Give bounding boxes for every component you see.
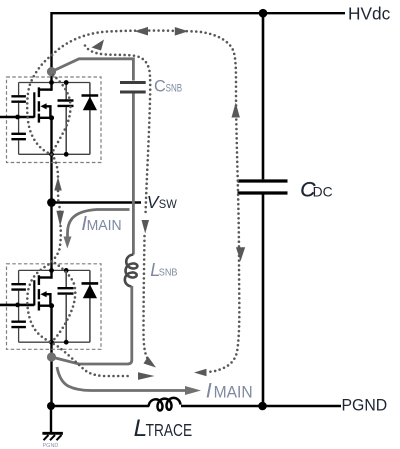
wire gate-branch lower xyxy=(18,140,20,154)
capacitor Cgd Q1 xyxy=(11,96,26,101)
wire PGND bottom rail xyxy=(51,405,150,407)
arrowhead dotted rail down (below Vsw) xyxy=(56,211,64,227)
MOSFET cell Q2 (bottom) xyxy=(0,264,101,350)
svg-text:C: C xyxy=(154,78,166,96)
node Q1 cds bottom node xyxy=(64,152,69,157)
wire gate-branch mid xyxy=(18,103,20,134)
transistor Q2 xyxy=(34,270,54,311)
wire snubber top (gray) xyxy=(52,59,134,81)
diode body D2 xyxy=(82,270,99,342)
svg-text:MAIN: MAIN xyxy=(87,218,122,234)
wire left rail Q2 to PGND xyxy=(50,342,52,406)
svg-text:MAIN: MAIN xyxy=(214,383,253,401)
inductor LSNB xyxy=(125,255,138,287)
svg-text:PGND: PGND xyxy=(342,396,388,415)
arrow IMAIN lower (gray) xyxy=(57,367,201,395)
wire HVdc top rail xyxy=(52,12,346,14)
node snubber bottom gray dot xyxy=(47,352,56,361)
node Vsw xyxy=(47,198,56,207)
capacitor Cgd Q2 xyxy=(11,284,26,289)
inductor LTRACE xyxy=(149,398,181,411)
arrowhead dotted top-left (left) xyxy=(135,27,149,36)
wire cell bottom line xyxy=(19,341,90,343)
node Q2 cds bottom node xyxy=(64,340,69,345)
dotted loop snubber-side xyxy=(85,46,151,364)
node gate junction Q2 xyxy=(15,303,20,308)
wire cell top line xyxy=(19,269,90,271)
arrowhead dotted down (CDC side) xyxy=(236,247,245,261)
capacitor CSNB xyxy=(120,83,146,93)
wire gate-branch lower xyxy=(18,328,20,342)
svg-text:DC: DC xyxy=(313,185,333,200)
wire Q1 source to bottom xyxy=(50,118,52,155)
wire gate-branch upper xyxy=(18,83,20,96)
svg-text:I: I xyxy=(206,378,212,402)
svg-text:PGND: PGND xyxy=(43,443,59,449)
capacitor CDC xyxy=(238,13,288,406)
dotted loop outer (main ringing loop) xyxy=(27,31,239,376)
wire left rail top (HVdc to Q1 drain) xyxy=(50,12,52,83)
transistor Q1 xyxy=(34,82,54,123)
wire gate-branch mid xyxy=(18,290,20,321)
svg-text:SNB: SNB xyxy=(166,83,183,95)
node Q1 cds top node xyxy=(64,80,69,85)
wire snubber mid (gray) xyxy=(132,94,135,255)
arrowhead dotted rail up (between cells) xyxy=(54,177,62,191)
wire Vsw stub xyxy=(52,201,142,204)
enclosure dashed box Q1 xyxy=(7,77,102,163)
wire gate lead Q2 xyxy=(0,304,34,307)
ground PGND symbol xyxy=(42,406,63,449)
arrowhead dotted snubber start (down-left) xyxy=(92,40,105,51)
wire PGND bottom rail right xyxy=(181,405,341,407)
svg-text:HVdc: HVdc xyxy=(348,3,391,23)
node Q1 source node xyxy=(49,152,54,157)
wire Q2 source to bottom xyxy=(50,306,52,343)
wire gate lead Q1 xyxy=(0,116,34,119)
node Q2 cds top node xyxy=(64,268,69,273)
node Q1 drain node xyxy=(49,80,54,85)
node PGND-left junction xyxy=(47,402,55,410)
wire left rail Q1 to Vsw xyxy=(50,154,52,202)
node Q2 drain node xyxy=(49,268,54,273)
arrowhead dotted bottom-left-end (left) xyxy=(194,369,207,376)
wire gate-branch upper xyxy=(18,270,20,283)
node gate junction Q1 xyxy=(15,115,20,120)
wire left rail Vsw to Q2 xyxy=(50,203,52,271)
svg-text:SNB: SNB xyxy=(159,266,178,278)
wire cell bottom line xyxy=(19,153,90,155)
arrowhead dotted snubber down (at Vsw) xyxy=(142,220,150,234)
svg-text:TRACE: TRACE xyxy=(146,420,193,440)
enclosure dashed box Q2 xyxy=(7,264,102,350)
capacitor Cds Q1 xyxy=(58,83,74,155)
node Q2 source node xyxy=(49,340,54,345)
wire cell top line xyxy=(19,82,90,84)
node PGND junction xyxy=(258,402,267,411)
wire snubber bottom (gray) xyxy=(52,286,132,364)
capacitor Cds Q2 xyxy=(58,270,74,342)
node snubber top gray dot xyxy=(47,67,56,76)
arrowhead dotted up (CDC side) xyxy=(232,103,240,118)
arrowhead dotted snubber end (down-right) xyxy=(144,357,157,368)
capacitor Cgs Q2 xyxy=(11,322,26,327)
arrow IMAIN upper (gray) xyxy=(64,210,130,249)
svg-text:SW: SW xyxy=(159,197,177,211)
MOSFET cell Q1 (top) xyxy=(0,77,101,163)
node HVdc junction xyxy=(259,9,268,18)
capacitor Cgs Q1 xyxy=(11,134,26,139)
arrowhead dotted bottom-mid (right) xyxy=(138,372,155,380)
diode body D1 xyxy=(82,83,99,155)
arrowhead dotted top-right (right) xyxy=(175,27,189,36)
